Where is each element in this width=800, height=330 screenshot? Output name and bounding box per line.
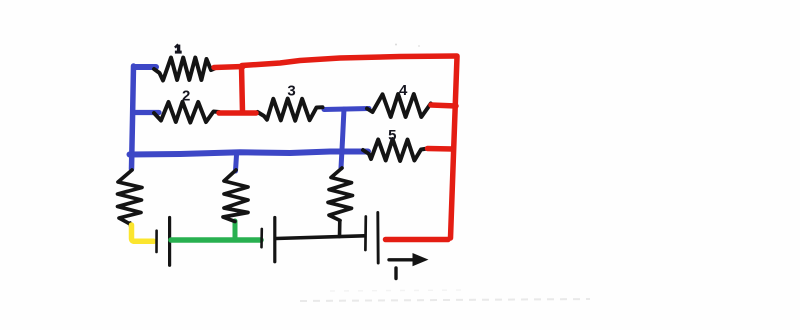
resistor RC vertical xyxy=(328,168,353,221)
faint scan artifact band xyxy=(300,299,590,301)
wire: red right rail vertical xyxy=(451,57,458,238)
battery B3 long plate xyxy=(376,213,379,264)
wire: black lead RA bottom xyxy=(128,223,132,226)
wire: blue left rail vertical xyxy=(132,66,134,169)
label I xyxy=(394,268,397,279)
battery B2 short plate xyxy=(260,229,263,247)
resistor R4 xyxy=(367,94,431,117)
battery B1 short plate xyxy=(155,231,158,252)
wire: blue stub from left rail to R2 xyxy=(134,110,159,115)
wire: green wire battery B1 to B2 xyxy=(171,237,261,243)
label 1 xyxy=(175,44,182,52)
wire: blue vertical between R3/R4 node down through rail xyxy=(341,109,344,168)
resistor RA vertical xyxy=(118,170,143,224)
battery B1 long plate xyxy=(168,218,171,266)
resistor RB vertical xyxy=(223,170,248,222)
wire: red bottom from battery B3 to right rail xyxy=(386,237,449,243)
faint scan speck xyxy=(395,44,397,46)
wire: yellow L wire xyxy=(132,225,154,241)
wire: blue long bottom rail xyxy=(130,152,369,155)
battery B2 long plate xyxy=(273,218,276,262)
wire: red from R1 right end xyxy=(214,67,243,68)
wire: blue horizontal R3 right to R4 left xyxy=(324,109,369,110)
wire: red top rail xyxy=(242,56,457,66)
resistor R3 xyxy=(258,99,323,121)
svg-text:3: 3 xyxy=(287,83,295,100)
svg-text:2: 2 xyxy=(182,88,190,105)
resistor R1 xyxy=(154,58,215,81)
wire: red stub R4 to right rail xyxy=(431,105,456,106)
resistor R2 xyxy=(154,102,219,123)
wire: blue stub from left rail to R1 xyxy=(134,64,156,70)
wire: black wire battery B2 to B3 xyxy=(276,236,364,239)
wire: blue stub rail down to resistor B xyxy=(236,155,237,171)
current arrow xyxy=(389,258,414,261)
wire: red vertical drop to R2/R3 node xyxy=(242,66,243,112)
battery B3 short plate xyxy=(364,217,367,251)
wire: green stub up to resistor B xyxy=(233,221,238,240)
wire: black lead RC bottom xyxy=(338,221,342,237)
wire: red segment R2 right to R3 left xyxy=(219,110,256,116)
svg-text:4: 4 xyxy=(399,82,408,99)
resistor R5 xyxy=(363,139,428,161)
wire: red stub R5 to right rail xyxy=(428,146,454,152)
svg-text:5: 5 xyxy=(388,127,396,144)
faint scan speck xyxy=(418,45,420,47)
